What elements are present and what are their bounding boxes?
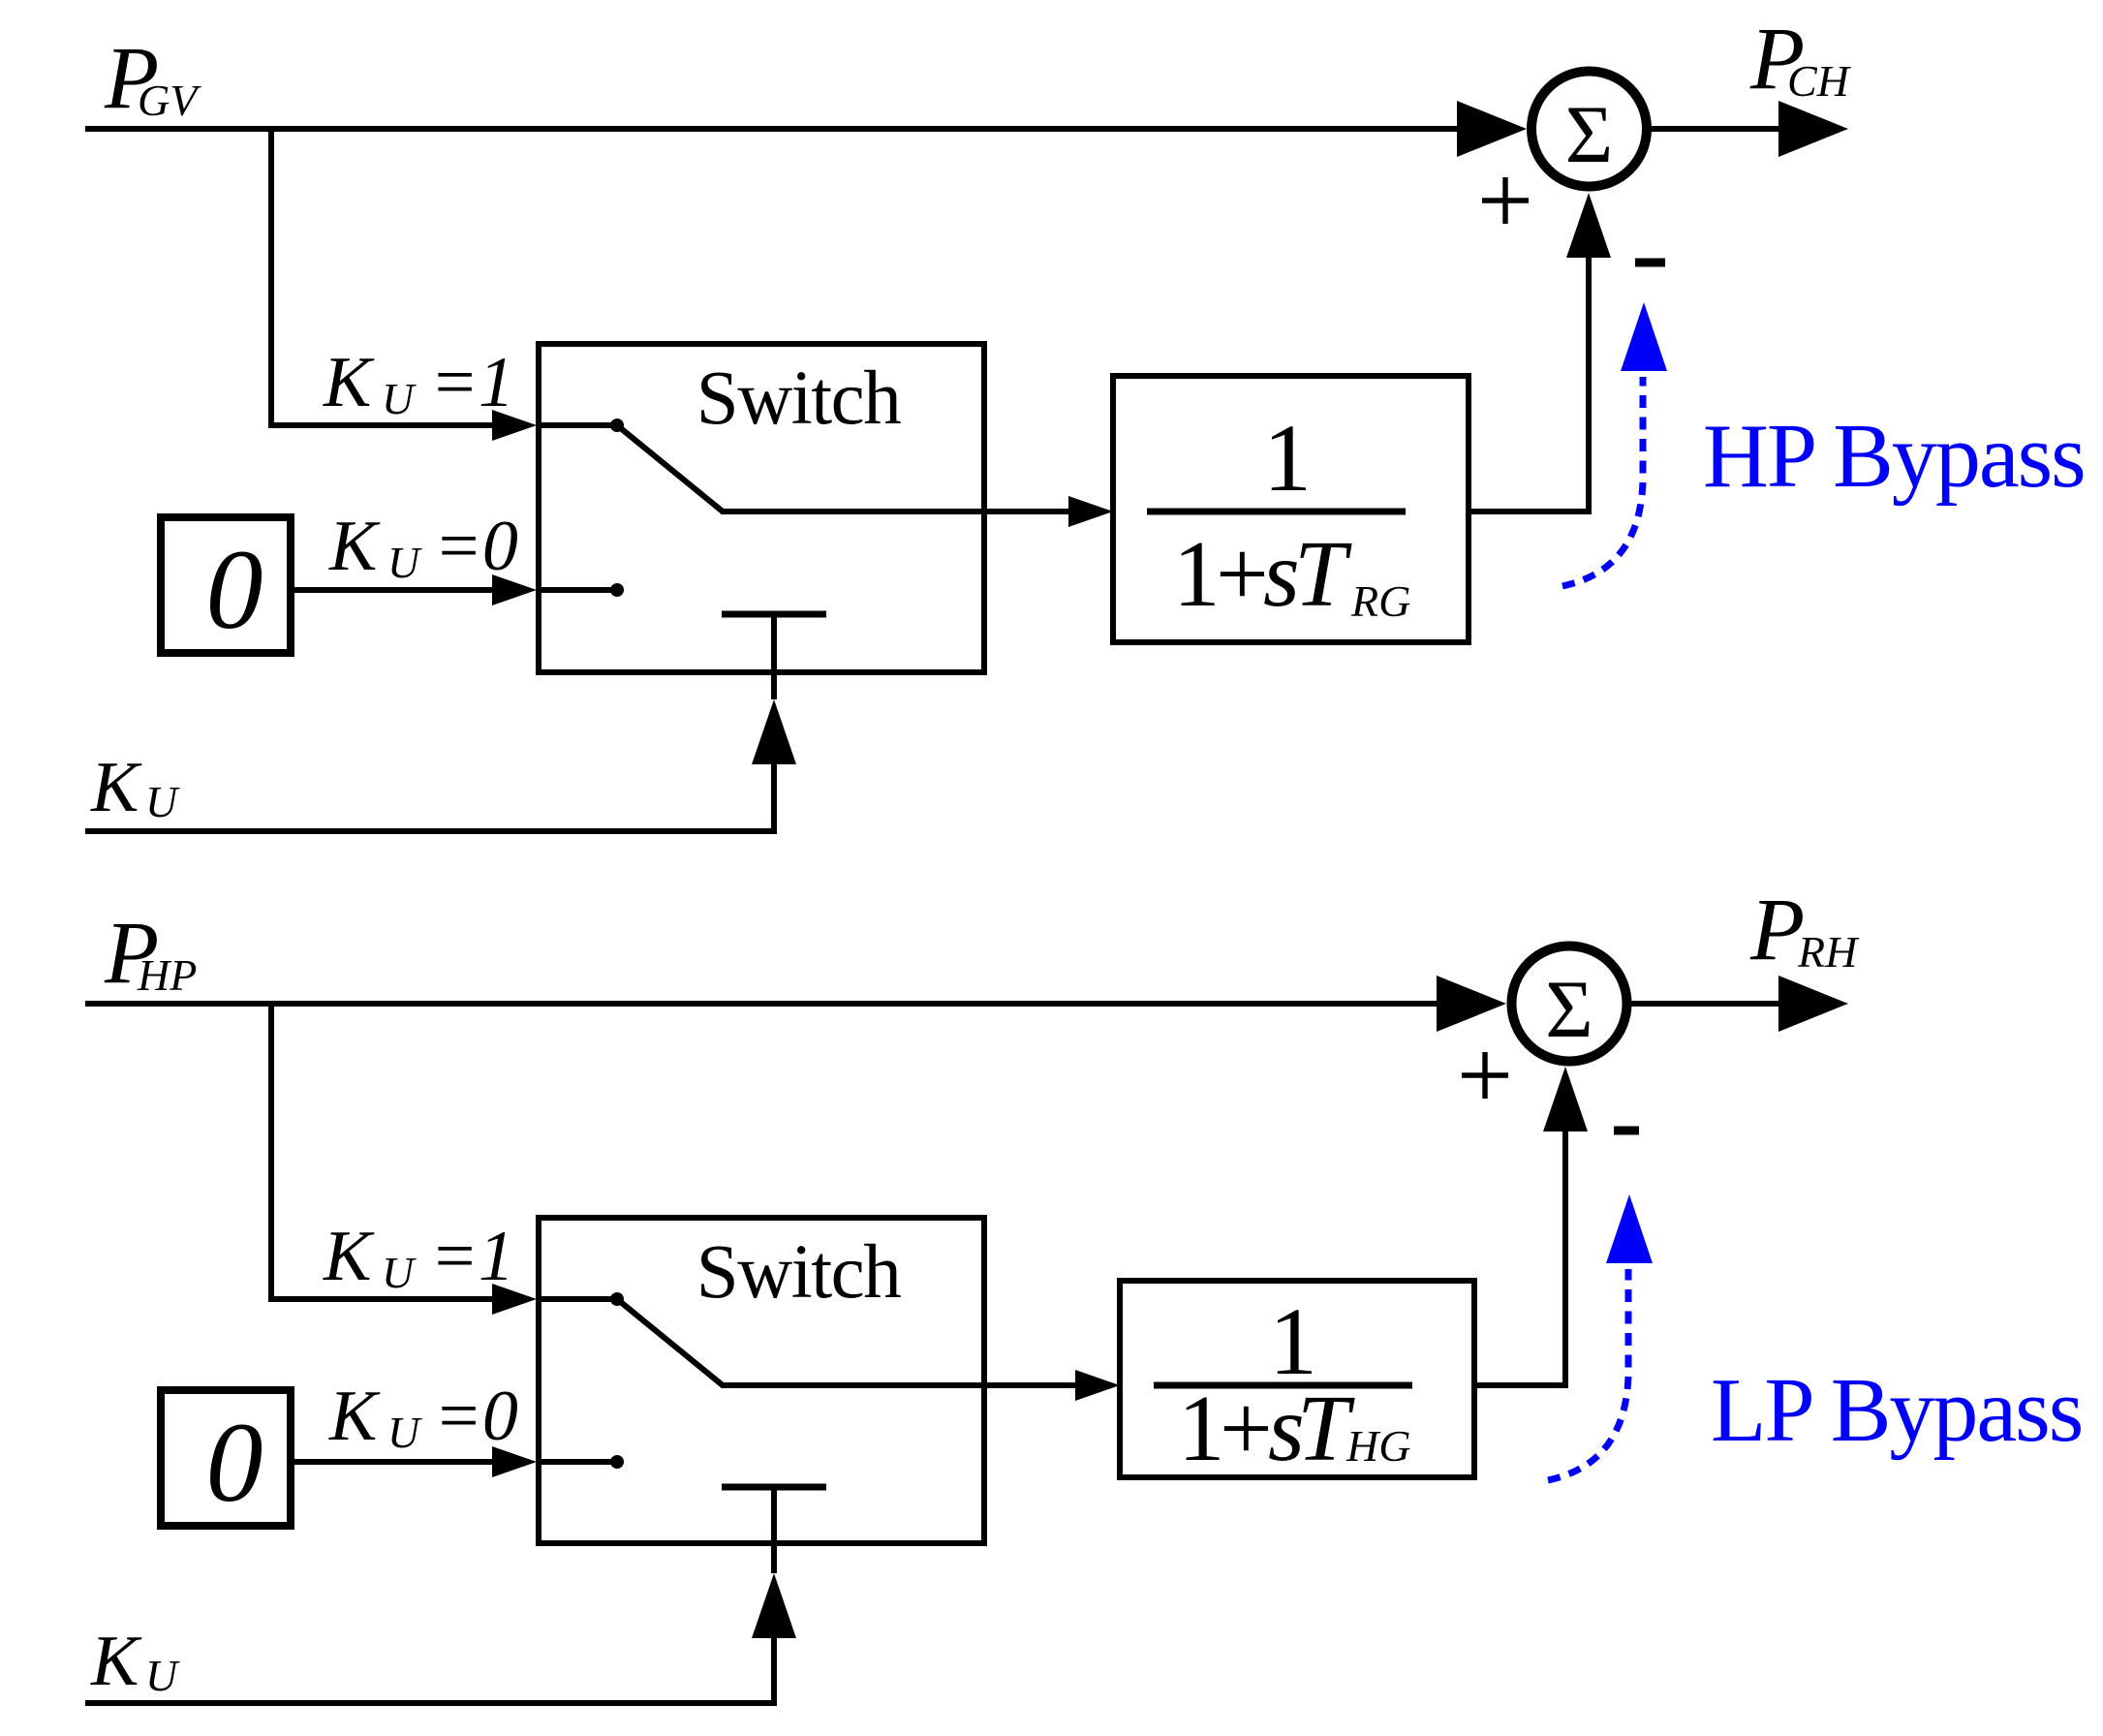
node KU label top bbox=[90, 748, 180, 827]
arrowhead KU=1 into switch SW2 bbox=[492, 1284, 537, 1315]
arrowhead PRH output bbox=[1778, 976, 1848, 1032]
wire branch from PGV down bbox=[268, 126, 274, 425]
svg-text:P: P bbox=[1749, 880, 1805, 978]
arrowhead into S1 bottom bbox=[1566, 193, 1611, 258]
arrowhead KU=0 into SW1 bbox=[492, 574, 537, 605]
svg-text:K: K bbox=[90, 1622, 142, 1701]
switch SW1 box bbox=[539, 344, 984, 672]
arrowhead PCH output bbox=[1778, 101, 1848, 157]
svg-text:Switch: Switch bbox=[696, 1230, 901, 1315]
svg-text:0: 0 bbox=[206, 1399, 263, 1526]
arrowhead into summer S2 bbox=[1437, 976, 1506, 1032]
svg-text:RH: RH bbox=[1797, 927, 1860, 976]
wire PHP main rail bbox=[85, 1001, 1442, 1007]
minus sign at S1 bbox=[1635, 259, 1665, 267]
LP bypass dashed curve bbox=[1548, 1269, 1628, 1480]
node PCH label bbox=[1749, 9, 1852, 108]
svg-text:=1: =1 bbox=[430, 1217, 514, 1296]
wire Z2 to SW2 bbox=[291, 1459, 496, 1465]
node PHP label bbox=[104, 903, 197, 1002]
svg-text:=0: =0 bbox=[434, 507, 518, 586]
switch SW2 box bbox=[539, 1218, 984, 1543]
label KU=1 lower bbox=[323, 1217, 514, 1297]
svg-text:1: 1 bbox=[1263, 404, 1312, 511]
switch SW2 title bbox=[696, 1230, 901, 1315]
junction dot SW1 input 0 bbox=[537, 583, 624, 597]
svg-text:U: U bbox=[382, 374, 417, 423]
HP bypass dashed curve bbox=[1562, 377, 1643, 586]
svg-text:Σ: Σ bbox=[1545, 964, 1593, 1055]
wire G2 output bbox=[1474, 1382, 1566, 1388]
label KU=0 bbox=[328, 507, 518, 587]
svg-text:K: K bbox=[328, 1377, 381, 1456]
arrowhead KU control into SW1 bbox=[752, 699, 796, 764]
SW1 control contact bar bbox=[722, 614, 826, 699]
transfer block G1 1/(1+sTRG) bbox=[1113, 376, 1469, 642]
switch SW2 lever bbox=[617, 1299, 723, 1385]
plus sign at S2 bbox=[1462, 1052, 1508, 1099]
junction dot SW2 input 1 bbox=[537, 1292, 624, 1306]
svg-text:HG: HG bbox=[1345, 1421, 1410, 1471]
svg-text:Σ: Σ bbox=[1565, 89, 1613, 180]
wire branch from PHP down bbox=[268, 1001, 274, 1299]
wire KU rail top bbox=[85, 828, 777, 834]
HP bypass blue arrowhead bbox=[1621, 302, 1667, 371]
wire G1 output bbox=[1469, 509, 1589, 514]
wire up to S2 bbox=[1562, 1131, 1568, 1388]
svg-text:1: 1 bbox=[1178, 1377, 1225, 1480]
wire up to S1 bbox=[1586, 258, 1592, 514]
svg-text:1: 1 bbox=[1173, 522, 1221, 626]
SW2 control contact bar bbox=[722, 1487, 826, 1573]
switch SW1 title bbox=[696, 356, 901, 441]
svg-text:=0: =0 bbox=[434, 1377, 518, 1456]
wire KU control stem bbox=[771, 764, 777, 834]
junction dot SW2 input 0 bbox=[537, 1455, 624, 1469]
plus sign at S1 bbox=[1482, 177, 1529, 224]
switch SW1 lever bbox=[617, 425, 723, 511]
arrowhead KU=0 into SW2 bbox=[492, 1446, 537, 1477]
wire S2 output bbox=[1626, 1001, 1782, 1007]
svg-text:U: U bbox=[145, 777, 180, 826]
svg-text:K: K bbox=[328, 507, 381, 586]
wire S1 output bbox=[1647, 126, 1782, 132]
svg-text:U: U bbox=[382, 1248, 417, 1297]
wire KU=1 input bbox=[268, 422, 496, 428]
arrowhead KU=1 into switch SW1 bbox=[492, 410, 537, 441]
arrowhead into block G1 bbox=[1068, 496, 1113, 527]
wire SW2 output bbox=[721, 1382, 1080, 1388]
wire SW1 output bbox=[721, 509, 1073, 514]
svg-text:+: + bbox=[1216, 522, 1269, 626]
wire Z1 to SW1 bbox=[291, 587, 496, 593]
arrowhead KU control into SW2 bbox=[752, 1573, 796, 1638]
label LP Bypass bbox=[1711, 1360, 2082, 1461]
arrowhead into block G2 bbox=[1075, 1370, 1120, 1401]
svg-text:U: U bbox=[387, 1408, 422, 1457]
svg-text:0: 0 bbox=[206, 526, 263, 653]
node PRH label bbox=[1749, 880, 1860, 978]
svg-text:LP Bypass: LP Bypass bbox=[1711, 1360, 2082, 1461]
svg-text:K: K bbox=[90, 748, 142, 827]
svg-text:CH: CH bbox=[1787, 56, 1852, 106]
summer S2 bbox=[1512, 946, 1627, 1062]
LP bypass blue arrowhead bbox=[1606, 1194, 1653, 1263]
svg-text:K: K bbox=[323, 1217, 375, 1296]
svg-text:+: + bbox=[1220, 1377, 1273, 1480]
constant block Z2 (0) bbox=[161, 1390, 291, 1526]
node PGV label bbox=[104, 28, 201, 127]
node KU label bottom bbox=[90, 1622, 180, 1701]
arrowhead into S2 bottom bbox=[1543, 1067, 1588, 1131]
wire PGV main rail bbox=[85, 126, 1463, 132]
summer S1 bbox=[1531, 72, 1647, 187]
wire KU rail bottom bbox=[85, 1700, 777, 1706]
svg-text:T: T bbox=[1294, 522, 1352, 626]
svg-text:U: U bbox=[145, 1651, 180, 1700]
label KU=0 lower bbox=[328, 1377, 518, 1457]
transfer block G2 1/(1+sTHG) bbox=[1120, 1281, 1474, 1480]
label KU=1 bbox=[323, 343, 514, 423]
svg-text:RG: RG bbox=[1350, 576, 1410, 626]
svg-text:GV: GV bbox=[138, 76, 201, 125]
wire KU=1 input lower bbox=[268, 1296, 496, 1302]
svg-text:K: K bbox=[323, 343, 375, 422]
svg-text:U: U bbox=[387, 538, 422, 587]
label HP Bypass bbox=[1703, 406, 2085, 507]
wire KU control stem lower bbox=[771, 1638, 777, 1706]
minus sign at S2 bbox=[1614, 1127, 1639, 1135]
constant block Z1 (0) bbox=[161, 517, 291, 653]
junction dot SW1 input 1 bbox=[537, 418, 624, 432]
svg-text:HP: HP bbox=[137, 950, 197, 1000]
svg-text:Switch: Switch bbox=[696, 356, 901, 441]
svg-text:HP Bypass: HP Bypass bbox=[1703, 406, 2085, 507]
arrowhead into summer S1 bbox=[1457, 101, 1527, 157]
svg-text:=1: =1 bbox=[430, 343, 514, 422]
